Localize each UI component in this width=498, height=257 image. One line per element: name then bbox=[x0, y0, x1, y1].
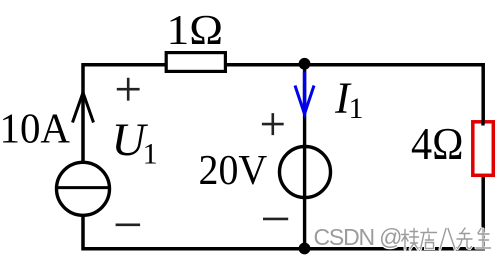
svg-text:CSDN @: CSDN @ bbox=[314, 224, 403, 250]
svg-text:1Ω: 1Ω bbox=[167, 8, 224, 54]
svg-text:20V: 20V bbox=[199, 148, 268, 194]
svg-text:4Ω: 4Ω bbox=[411, 119, 464, 169]
svg-text:1: 1 bbox=[349, 92, 364, 125]
svg-text:1: 1 bbox=[143, 137, 158, 170]
svg-text:10A: 10A bbox=[0, 106, 71, 152]
